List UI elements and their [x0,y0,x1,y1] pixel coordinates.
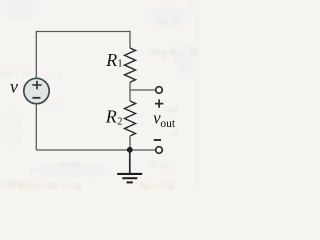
svg-text:+ ʌⁱ: + ʌⁱ [50,70,65,81]
svg-text:sing R₁ . Ω: sing R₁ . Ω [148,46,198,58]
ground: middle bar [122,177,137,179]
wire: right vertical from top wire to R1 [129,31,131,48]
- sign at output [154,139,161,141]
wire: top horizontal from source to R1 branch [36,31,130,33]
terminal: - output (open circle) [156,147,163,154]
wire: left vertical below voltage source [35,104,37,150]
svg-text:Я oʒ 5: Я oʒ 5 [150,160,176,171]
resistor R2 (zigzag) [125,101,136,136]
junction dot at ground node [127,147,133,153]
ground: bottom bar [127,181,133,183]
svg-text:1: 1 [117,59,122,70]
svg-text:ʃo Яʌ 'ɵ O Яo = 1 Ω: ʃo Яʌ 'ɵ O Яo = 1 Ω [7,181,81,190]
svg-text:ΧΖΞΤ: ΧΖΞΤ [42,102,66,112]
wire: bottom horizontal rail [36,149,155,151]
svg-text:R: R [105,50,117,70]
resistor R1 (zigzag) [125,48,136,82]
svg-text:v: v [10,77,18,97]
+ sign inside source [32,81,41,89]
terminal: + output (open circle) [156,87,163,94]
voltage source v (circle) [24,78,49,103]
svg-text:Яʌ = 1 Ω: Яʌ = 1 Ω [140,181,174,190]
svg-text:2: 2 [117,117,122,128]
wire: left vertical above voltage source [35,31,37,79]
svg-text:ɥя: ɥя [168,104,177,114]
svg-text:out: out [160,118,176,130]
- sign inside source [32,97,40,99]
svg-text:ʌ: ʌ [188,0,192,9]
wire: below R2 to bottom rail [129,136,131,150]
+ sign at output [155,99,163,107]
ground: top bar [117,173,142,175]
svg-text:R: R [105,107,117,127]
svg-text:oɴ oʒ: oɴ oʒ [60,158,80,168]
svg-text:Яʋ Я: Яʋ Я [158,17,179,28]
ground: stem [129,150,131,173]
wire: branch to + output terminal [130,89,155,91]
wire: between R1 and R2 with output tap [129,82,131,101]
